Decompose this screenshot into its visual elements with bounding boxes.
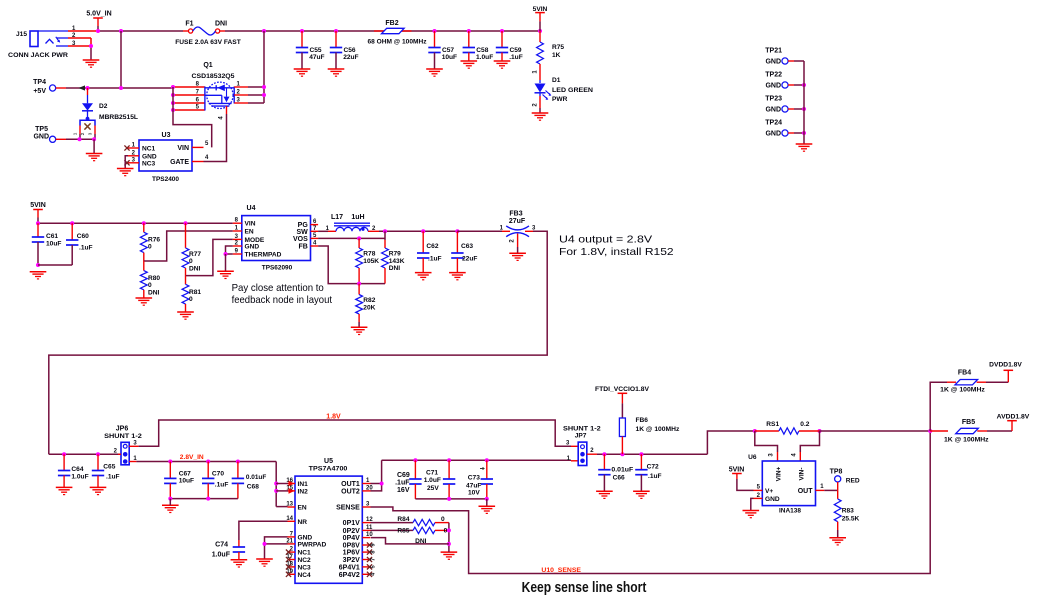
svg-text:FTDI_VCCIO1.8V: FTDI_VCCIO1.8V xyxy=(595,386,650,393)
svg-text:TP4: TP4 xyxy=(33,79,46,86)
svg-text:.1uF: .1uF xyxy=(106,474,120,481)
svg-text:OUT1: OUT1 xyxy=(341,481,360,488)
svg-text:U10_SENSE: U10_SENSE xyxy=(541,568,581,574)
svg-text:THERMPAD: THERMPAD xyxy=(245,252,282,259)
svg-text:D1: D1 xyxy=(552,77,561,84)
svg-text:16V: 16V xyxy=(397,487,410,494)
svg-text:DVDD1.8V: DVDD1.8V xyxy=(989,361,1022,368)
svg-text:CONN JACK PWR: CONN JACK PWR xyxy=(8,52,68,59)
svg-text:0.01uF: 0.01uF xyxy=(246,474,266,481)
svg-text:0P8V: 0P8V xyxy=(343,543,360,550)
svg-text:FUSE 2.0A 63V FAST: FUSE 2.0A 63V FAST xyxy=(175,39,241,46)
svg-text:RS1: RS1 xyxy=(766,421,779,428)
svg-text:VOS: VOS xyxy=(293,236,308,243)
svg-text:U4: U4 xyxy=(247,205,256,212)
svg-text:1: 1 xyxy=(73,132,78,135)
svg-text:.1uF: .1uF xyxy=(395,479,410,486)
svg-text:0.01uF: 0.01uF xyxy=(611,466,633,473)
svg-text:10uF: 10uF xyxy=(46,241,61,248)
svg-text:0: 0 xyxy=(148,244,152,251)
svg-text:C66: C66 xyxy=(613,475,625,482)
svg-text:MBRB2515L: MBRB2515L xyxy=(99,114,138,121)
svg-text:NC3: NC3 xyxy=(298,564,312,571)
svg-text:C63: C63 xyxy=(461,243,473,250)
svg-text:.1uF: .1uF xyxy=(648,473,662,480)
svg-text:VIN-: VIN- xyxy=(798,468,805,481)
svg-text:RED: RED xyxy=(846,477,860,484)
svg-text:DNI: DNI xyxy=(189,266,201,273)
svg-text:0: 0 xyxy=(189,296,193,303)
svg-text:U3: U3 xyxy=(162,132,171,139)
svg-text:C72: C72 xyxy=(647,464,659,471)
svg-text:L17: L17 xyxy=(331,214,343,221)
svg-text:C55: C55 xyxy=(310,47,322,54)
svg-text:C58: C58 xyxy=(476,47,488,54)
svg-text:C56: C56 xyxy=(344,47,356,54)
svg-text:OUT2: OUT2 xyxy=(341,488,360,495)
svg-text:5.0V_IN: 5.0V_IN xyxy=(86,11,111,18)
svg-text:5: 5 xyxy=(371,565,377,568)
svg-text:7: 7 xyxy=(371,558,377,561)
svg-text:10V: 10V xyxy=(468,490,480,497)
svg-text:.1uF: .1uF xyxy=(215,482,229,489)
svg-text:Q1: Q1 xyxy=(203,62,212,69)
svg-text:3: 3 xyxy=(88,132,93,135)
svg-text:1K @ 100MHz: 1K @ 100MHz xyxy=(940,386,985,393)
svg-text:LED GREEN: LED GREEN xyxy=(552,87,593,94)
svg-text:22uF: 22uF xyxy=(462,256,477,263)
svg-text:R77: R77 xyxy=(189,251,201,258)
svg-text:C59: C59 xyxy=(510,47,522,54)
svg-text:EN: EN xyxy=(245,229,254,236)
svg-text:25V: 25V xyxy=(427,485,439,492)
svg-text:SW: SW xyxy=(297,229,309,236)
svg-text:GND: GND xyxy=(765,83,781,90)
svg-text:0: 0 xyxy=(148,282,152,289)
svg-text:47uF: 47uF xyxy=(466,482,481,489)
svg-text:FB: FB xyxy=(298,244,307,251)
svg-text:GND: GND xyxy=(765,131,781,138)
svg-text:C74: C74 xyxy=(215,542,228,549)
svg-text:JP7: JP7 xyxy=(575,433,587,440)
svg-text:0P1V: 0P1V xyxy=(343,520,360,527)
svg-text:10uF: 10uF xyxy=(179,478,194,485)
svg-text:NC1: NC1 xyxy=(298,550,312,557)
svg-text:8: 8 xyxy=(371,551,377,554)
svg-text:.1uF: .1uF xyxy=(509,54,523,61)
svg-text:F1: F1 xyxy=(185,21,193,28)
svg-text:VIN: VIN xyxy=(177,145,189,152)
svg-text:143K: 143K xyxy=(389,258,405,265)
svg-text:C65: C65 xyxy=(103,464,115,471)
svg-text:1.0uF: 1.0uF xyxy=(424,477,441,484)
svg-text:TP5: TP5 xyxy=(35,126,48,133)
svg-text:EN: EN xyxy=(298,505,307,512)
svg-text:GND: GND xyxy=(33,134,49,141)
svg-text:U6: U6 xyxy=(748,454,757,461)
svg-text:Keep sense line short: Keep sense line short xyxy=(522,580,647,596)
svg-text:GND: GND xyxy=(765,59,781,66)
svg-text:0P4V: 0P4V xyxy=(343,535,360,542)
svg-text:NC1: NC1 xyxy=(142,146,156,153)
svg-text:1K: 1K xyxy=(552,52,561,59)
svg-text:2.8V_IN: 2.8V_IN xyxy=(180,454,204,461)
svg-text:.1uF: .1uF xyxy=(79,245,93,252)
svg-text:C64: C64 xyxy=(71,466,83,473)
svg-text:GND: GND xyxy=(298,534,313,541)
svg-text:+5V: +5V xyxy=(33,88,46,95)
svg-text:25.5K: 25.5K xyxy=(842,515,860,522)
svg-text:R78: R78 xyxy=(363,251,375,258)
svg-text:TP23: TP23 xyxy=(765,96,782,103)
svg-text:DNI: DNI xyxy=(215,21,227,28)
svg-text:TPS2400: TPS2400 xyxy=(152,176,179,183)
svg-text:TP21: TP21 xyxy=(765,48,782,55)
svg-text:NC3: NC3 xyxy=(142,160,156,167)
svg-text:OUT: OUT xyxy=(798,488,814,495)
svg-text:GND: GND xyxy=(245,244,260,251)
svg-text:47uF: 47uF xyxy=(309,54,324,61)
svg-text:PWRPAD: PWRPAD xyxy=(298,541,327,548)
svg-text:0: 0 xyxy=(441,516,445,523)
svg-text:GATE: GATE xyxy=(170,159,189,166)
svg-text:C62: C62 xyxy=(426,243,438,250)
svg-text:D2: D2 xyxy=(99,103,108,110)
svg-text:C69: C69 xyxy=(397,472,410,479)
svg-text:22uF: 22uF xyxy=(343,54,358,61)
svg-text:R82: R82 xyxy=(363,297,375,304)
svg-text:0: 0 xyxy=(189,258,193,265)
svg-text:R80: R80 xyxy=(148,275,160,282)
svg-text:GND: GND xyxy=(142,153,157,160)
svg-text:6P4V2: 6P4V2 xyxy=(339,572,360,579)
svg-text:.1uF: .1uF xyxy=(428,256,442,263)
svg-text:C70: C70 xyxy=(212,470,224,477)
svg-text:C61: C61 xyxy=(46,233,58,240)
svg-text:VIN+: VIN+ xyxy=(776,466,783,481)
svg-text:INA138: INA138 xyxy=(779,508,801,515)
svg-text:1.8V: 1.8V xyxy=(326,414,341,421)
svg-text:VIN: VIN xyxy=(245,221,256,228)
svg-text:TP24: TP24 xyxy=(765,120,782,127)
svg-text:V+: V+ xyxy=(765,488,773,495)
svg-text:1.0uF: 1.0uF xyxy=(212,552,231,559)
svg-text:2: 2 xyxy=(80,132,85,135)
svg-text:1.0uF: 1.0uF xyxy=(476,54,493,61)
svg-text:6P4V1: 6P4V1 xyxy=(339,564,360,571)
svg-text:3P2V: 3P2V xyxy=(343,557,360,564)
svg-text:R79: R79 xyxy=(389,251,401,258)
svg-text:NC2: NC2 xyxy=(298,557,312,564)
svg-text:0P2V: 0P2V xyxy=(343,528,360,535)
svg-text:J15: J15 xyxy=(16,31,27,38)
svg-text:R83: R83 xyxy=(842,507,854,514)
svg-text:27uF: 27uF xyxy=(509,218,526,225)
svg-text:SHUNT 1-2: SHUNT 1-2 xyxy=(104,433,142,440)
svg-text:C57: C57 xyxy=(442,47,454,54)
svg-text:FB3: FB3 xyxy=(509,211,522,218)
svg-text:R85: R85 xyxy=(397,528,409,535)
svg-text:5VIN: 5VIN xyxy=(533,6,548,13)
svg-text:Pay close attention to: Pay close attention to xyxy=(232,282,324,294)
svg-text:C68: C68 xyxy=(247,484,259,491)
svg-text:C73: C73 xyxy=(468,475,480,482)
svg-text:5VIN: 5VIN xyxy=(30,202,46,209)
svg-text:PWR: PWR xyxy=(552,96,568,103)
svg-text:1K @ 100MHz: 1K @ 100MHz xyxy=(636,426,681,433)
svg-text:R75: R75 xyxy=(552,44,564,51)
svg-text:9: 9 xyxy=(371,543,377,546)
svg-text:0.2: 0.2 xyxy=(800,421,809,428)
svg-text:IN1: IN1 xyxy=(298,481,309,488)
svg-text:GND: GND xyxy=(765,496,780,503)
svg-text:SENSE: SENSE xyxy=(336,505,360,512)
svg-text:10uF: 10uF xyxy=(442,54,457,61)
svg-text:TPS62090: TPS62090 xyxy=(262,265,293,272)
svg-text:1P6V: 1P6V xyxy=(343,550,360,557)
svg-text:feedback node in layout: feedback node in layout xyxy=(232,294,332,306)
svg-text:IN2: IN2 xyxy=(298,488,309,495)
svg-text:NR: NR xyxy=(298,519,308,526)
svg-text:105K: 105K xyxy=(363,258,379,265)
svg-text:FB6: FB6 xyxy=(636,417,649,424)
svg-text:For 1.8V, install R152: For 1.8V, install R152 xyxy=(559,246,674,258)
svg-text:DNI: DNI xyxy=(389,265,401,272)
svg-text:R81: R81 xyxy=(189,289,201,296)
svg-text:JP6: JP6 xyxy=(116,426,129,433)
svg-text:GND: GND xyxy=(765,107,781,114)
svg-text:DNI: DNI xyxy=(148,290,160,297)
svg-text:1uH: 1uH xyxy=(351,214,364,221)
svg-text:TP22: TP22 xyxy=(765,72,782,79)
svg-text:NC4: NC4 xyxy=(298,572,312,579)
svg-text:U4 output = 2.8V: U4 output = 2.8V xyxy=(559,234,652,246)
svg-text:SHUNT 1-2: SHUNT 1-2 xyxy=(563,425,601,432)
svg-text:C71: C71 xyxy=(426,469,438,476)
svg-text:U5: U5 xyxy=(324,458,333,465)
svg-text:C60: C60 xyxy=(77,233,89,240)
svg-text:AVDD1.8V: AVDD1.8V xyxy=(997,414,1030,421)
svg-text:R84: R84 xyxy=(397,516,409,523)
svg-text:FB5: FB5 xyxy=(962,419,975,426)
svg-text:TP8: TP8 xyxy=(830,469,843,476)
svg-text:R76: R76 xyxy=(148,237,160,244)
svg-text:1.0uF: 1.0uF xyxy=(71,474,88,481)
svg-text:FB4: FB4 xyxy=(958,369,971,376)
svg-text:CSD18532Q5: CSD18532Q5 xyxy=(192,73,235,80)
svg-text:C67: C67 xyxy=(179,470,191,477)
svg-text:5VIN: 5VIN xyxy=(729,467,745,474)
svg-text:68 OHM @ 100MHz: 68 OHM @ 100MHz xyxy=(368,39,428,46)
svg-text:20K: 20K xyxy=(363,305,375,312)
svg-text:TPS7A4700: TPS7A4700 xyxy=(309,466,348,473)
svg-text:1K @ 100MHz: 1K @ 100MHz xyxy=(944,436,989,443)
svg-text:FB2: FB2 xyxy=(385,20,398,27)
